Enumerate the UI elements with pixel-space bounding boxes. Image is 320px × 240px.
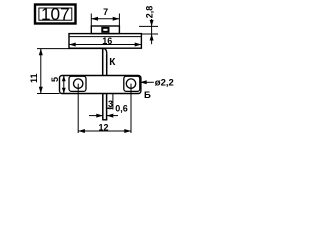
top view boss 7 wide (91, 26, 119, 34)
dim 2,8 extension line upper (139, 25, 158, 27)
svg-text:2,8: 2,8 (144, 6, 154, 19)
dim 0,6 right arrow line (107, 115, 118, 117)
dim 3 extension line (112, 94, 114, 110)
dim 12 extension line left (77, 84, 79, 133)
svg-text:16: 16 (102, 36, 112, 46)
dim 11 arrow bottom (39, 87, 43, 94)
dim 0,6 right arrow (107, 114, 114, 118)
left hole circle (74, 79, 83, 88)
dim 11 dimension line (40, 49, 42, 94)
right hole circle (126, 79, 135, 88)
top view plate outline 16 long (69, 34, 141, 49)
dim 16 arrow right (135, 43, 142, 47)
dim 0,6 left arrow (96, 114, 103, 118)
dim 16 dimension line (69, 44, 141, 46)
hole callout leader line (140, 81, 154, 83)
dim 12 arrow right (124, 129, 131, 133)
top view slot mark (102, 28, 108, 32)
front view right boss box (124, 76, 140, 91)
dim 12 dimension line (78, 130, 131, 132)
dim 11 bottom extension line (37, 93, 60, 95)
dim 7 arrow left (91, 17, 98, 21)
dim 12 extension line right (130, 84, 132, 133)
svg-text:7: 7 (103, 7, 108, 17)
stem top right chamfer (104, 49, 106, 54)
stem left edge (102, 49, 104, 76)
slot left line below plate (102, 94, 104, 120)
dim 2,8 extension line lower (141, 33, 158, 35)
svg-text:К: К (109, 57, 116, 68)
dim 11 top extension line (37, 48, 102, 50)
dim 5 arrow top (62, 76, 66, 82)
dim 3 arrow right (110, 107, 113, 109)
dim 5 arrow bottom (62, 88, 66, 94)
dim 7 dimension line (91, 18, 119, 20)
dim 3 dimension line (107, 107, 113, 109)
dim 7 extension line left (90, 14, 92, 26)
figure number box 107 outer frame (35, 5, 76, 24)
svg-text:ø2,2: ø2,2 (155, 77, 174, 88)
top view plate inner edge line (70, 36, 141, 38)
slot bottom edge (102, 119, 107, 121)
dim 0,6 left arrow line (89, 115, 103, 117)
dim 7 extension line right (118, 14, 120, 26)
svg-text:3: 3 (108, 99, 113, 109)
svg-text:12: 12 (98, 122, 108, 132)
svg-text:Б: Б (144, 90, 151, 101)
dim 7 arrow right (113, 17, 120, 21)
stem top edge (102, 48, 104, 50)
dim 16 arrow left (69, 43, 76, 47)
slot right line below plate (106, 94, 108, 120)
svg-text:0,6: 0,6 (115, 103, 128, 113)
dim 3 arrow left (107, 107, 110, 109)
dim 2,8 arrow lower (150, 34, 154, 41)
front view left boss box (69, 76, 86, 91)
svg-text:11: 11 (29, 73, 39, 83)
dim 12 arrow left (78, 129, 85, 133)
front view plate outline (60, 76, 141, 94)
hole callout arrow (140, 80, 147, 84)
svg-text:5: 5 (50, 77, 60, 82)
svg-text:107: 107 (41, 4, 70, 24)
dim 2,8 arrow upper (150, 20, 154, 27)
dim 5 dimension line (63, 76, 65, 94)
figure number box 107 inner frame (39, 8, 72, 20)
dim 11 arrow top (39, 49, 43, 56)
stem right edge (106, 53, 108, 75)
dim 2,8 dimension line (151, 19, 153, 44)
